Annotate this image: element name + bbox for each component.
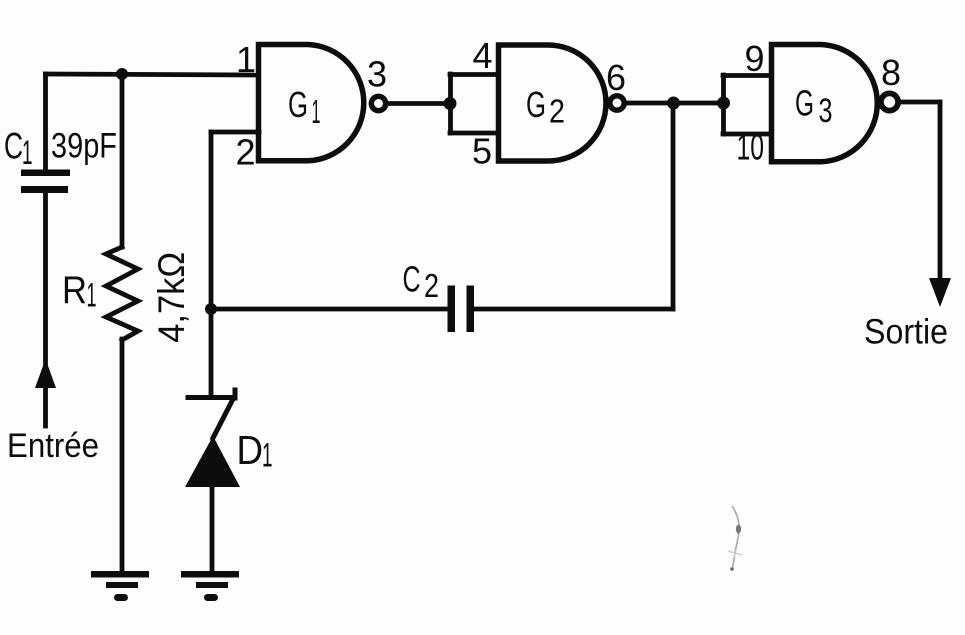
node junction feedback/D1/G1-pin2 [205,303,217,315]
svg-text:Entrée: Entrée [7,427,99,465]
wire C1 top lead [43,74,48,171]
input arrow (Entrée) [35,359,56,388]
svg-text:D: D [237,427,264,473]
svg-text:Sortie: Sortie [864,313,948,352]
resistor R1 zigzag body [106,247,138,340]
svg-text:1: 1 [262,437,273,475]
node junction G1 output at G2 bracket [444,97,457,110]
output arrow (Sortie) [929,278,951,307]
wire G2 pin 5 stub [450,131,498,136]
wire G2 input bracket vertical [448,74,453,133]
node junction R1/C1 top [116,68,128,80]
svg-text:1: 1 [87,277,97,315]
node junction at G3 bracket [717,97,730,110]
wire feedback right segment from C2 [475,307,673,312]
nand gate G2 body [499,45,607,161]
wire G3 pin 10 stub [723,132,771,137]
svg-text:C: C [4,126,23,167]
svg-text:3: 3 [819,92,833,130]
wire D1 top lead [209,309,214,396]
wire G2 pin 4 stub [450,72,498,77]
svg-text:4: 4 [472,35,492,76]
svg-text:3: 3 [367,54,387,95]
wire G1 pin 2 stub [211,130,259,135]
svg-text:5: 5 [472,131,492,172]
svg-text:G: G [526,84,546,125]
capacitor C1 [21,170,70,194]
svg-text:1: 1 [22,134,33,172]
wire G1 output to G2 input node [389,101,450,106]
svg-text:2: 2 [549,93,565,130]
zener diode D1 [188,390,235,438]
wire G3 pin 9 stub [723,73,771,78]
svg-text:6: 6 [606,57,626,98]
wire feedback left segment to C2 [211,307,446,312]
wire D1 bottom lead to ground [210,486,215,573]
svg-text:G: G [795,83,814,124]
wire feedback vertical riser to G2 output net [671,103,676,309]
svg-text:4,7kΩ: 4,7kΩ [151,252,192,343]
wire G2 output to G3 input node [626,101,723,106]
node junction feedback riser on G2 output net [667,97,680,110]
nand gate G1 body [259,45,364,161]
ground symbol right [181,571,239,601]
wire R1 bottom lead to ground [120,339,125,573]
svg-text:10: 10 [737,127,765,168]
svg-text:2: 2 [235,132,255,173]
wire G3 output horizontal [899,100,940,105]
nand gate G3 output bubble [881,93,898,110]
capacitor C2 [448,286,475,333]
wire G1 pin 2 vertical down to feedback node [209,132,214,309]
nand gate G2 output bubble [610,96,624,110]
svg-text:1: 1 [236,39,256,80]
wire C1 bottom lead down through input arrow [43,191,48,426]
wire top input net from C1 to G1 pin 1 [46,74,259,75]
svg-text:9: 9 [744,38,764,79]
svg-text:8: 8 [881,52,901,93]
nand gate G3 body [772,45,878,162]
wire output vertical down to Sortie arrow [938,102,943,284]
svg-text:R: R [62,269,87,312]
svg-text:C: C [403,259,421,300]
wire R1 top lead [120,74,125,247]
svg-text:2: 2 [424,267,439,304]
svg-text:G: G [288,84,308,125]
wire G3 input bracket vertical [721,75,726,134]
ground symbol left [91,571,149,601]
nand gate G1 output bubble [371,96,385,110]
svg-text:1: 1 [312,93,321,130]
svg-text:39pF: 39pF [51,127,117,166]
